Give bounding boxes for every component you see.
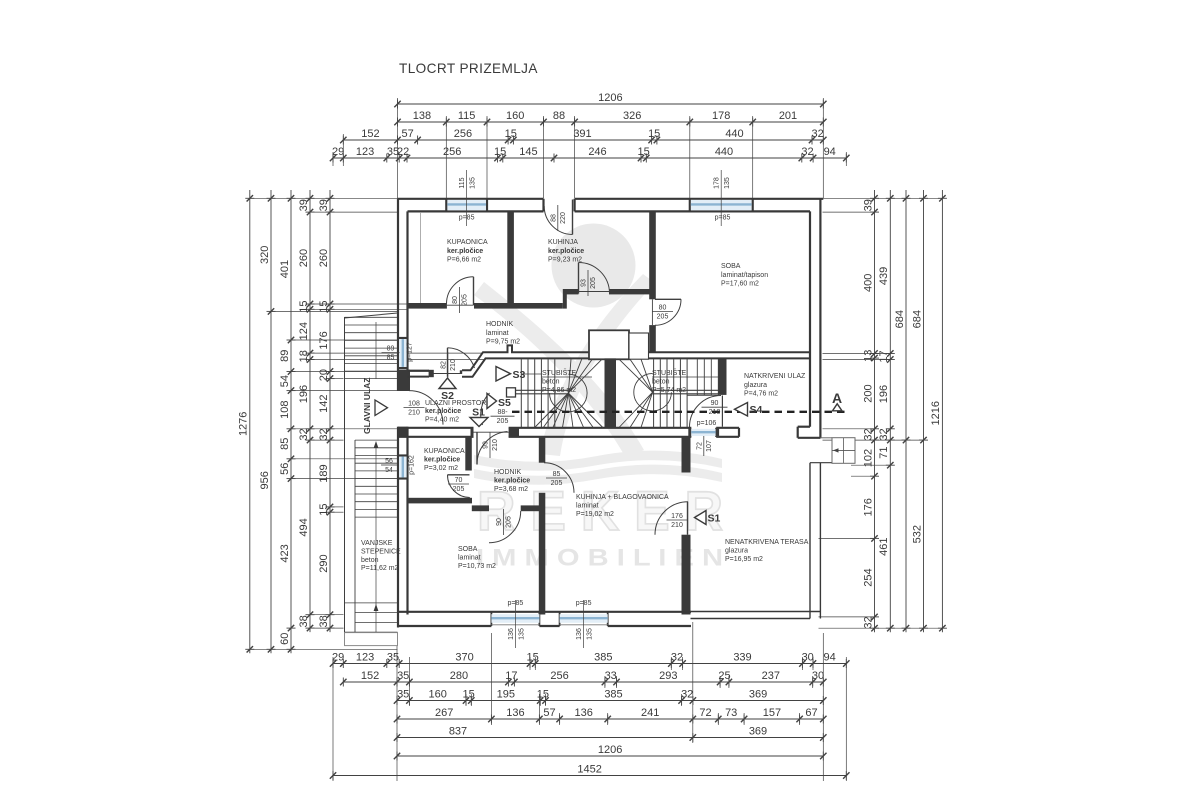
svg-text:VANJSKE: VANJSKE (361, 540, 393, 547)
svg-text:85: 85 (553, 471, 561, 478)
room label: HODNIK upper (486, 321, 520, 346)
svg-text:80: 80 (659, 305, 667, 312)
window 115 top (blue glazing) (447, 200, 486, 210)
svg-text:beton: beton (652, 379, 670, 386)
svg-text:TLOCRT PRIZEMLJA: TLOCRT PRIZEMLJA (399, 61, 538, 76)
svg-text:136: 136 (508, 628, 515, 640)
svg-text:29: 29 (332, 146, 344, 158)
svg-text:260: 260 (298, 249, 310, 267)
lower bathroom east wall (465, 437, 472, 471)
svg-text:KUPAONICA: KUPAONICA (447, 239, 488, 246)
svg-text:339: 339 (733, 652, 751, 664)
svg-text:38: 38 (298, 615, 310, 627)
svg-text:145: 145 (519, 146, 537, 158)
svg-text:136: 136 (575, 707, 593, 719)
svg-text:115: 115 (458, 110, 476, 122)
svg-text:176: 176 (318, 331, 330, 349)
svg-text:KUPAONICA: KUPAONICA (424, 448, 465, 455)
svg-text:70: 70 (455, 477, 463, 484)
svg-text:STUBIŠTE: STUBIŠTE (652, 368, 687, 377)
svg-text:210: 210 (671, 522, 683, 529)
svg-text:205: 205 (462, 294, 469, 306)
svg-text:18: 18 (298, 350, 310, 362)
left dimension column 5 (318, 190, 335, 632)
svg-text:195: 195 (497, 689, 515, 701)
window center line 115/135 (466, 170, 468, 226)
lower bathroom south wall (408, 498, 473, 504)
svg-text:ker.pločice: ker.pločice (425, 408, 461, 415)
svg-text:80: 80 (452, 296, 459, 304)
svg-text:237: 237 (762, 670, 780, 682)
section marker S3 (496, 367, 526, 382)
svg-text:684: 684 (894, 310, 906, 328)
label 93/205 kitchen door (581, 270, 598, 296)
svg-text:57: 57 (543, 707, 555, 719)
svg-text:p=106: p=106 (697, 420, 717, 427)
GLAVNI ULAZ label and arrow (362, 377, 388, 434)
svg-text:108: 108 (279, 401, 291, 419)
top extension lines (397, 98, 399, 198)
svg-text:P=3,02 m2: P=3,02 m2 (424, 465, 458, 472)
svg-text:HODNIK: HODNIK (486, 321, 514, 328)
svg-text:67: 67 (805, 707, 817, 719)
svg-text:35: 35 (397, 670, 409, 682)
svg-text:15: 15 (537, 689, 549, 701)
svg-text:210: 210 (450, 359, 457, 371)
svg-text:1216: 1216 (930, 401, 942, 425)
svg-text:ker.pločice: ker.pločice (494, 477, 530, 484)
svg-text:54: 54 (385, 467, 393, 474)
door 70/205 lower bathroom (448, 474, 470, 476)
svg-text:440: 440 (725, 128, 743, 140)
window 72/107 in stair hall south wall (blue) (691, 429, 715, 436)
room label: STUBISTE left (542, 368, 577, 394)
label 85/205 lower hallway door (546, 471, 567, 487)
exterior wall: bottom (south) (398, 612, 692, 626)
top dimension row 2 (394, 110, 826, 126)
right dimension column 4 (911, 190, 928, 632)
svg-text:beton: beton (542, 379, 560, 386)
svg-text:33: 33 (605, 670, 617, 682)
svg-text:210: 210 (709, 409, 721, 416)
svg-text:160: 160 (429, 689, 447, 701)
label 56/54 window (381, 458, 397, 474)
external staircase (VANJSKE STEPENICE) (345, 313, 398, 646)
svg-text:1206: 1206 (598, 744, 622, 756)
svg-text:S5: S5 (498, 397, 511, 409)
svg-text:SOBA: SOBA (458, 546, 478, 553)
svg-text:136: 136 (506, 707, 524, 719)
svg-text:p=127: p=127 (407, 342, 414, 362)
right dimension column 5 (930, 190, 947, 632)
stair hall bottom wall / lower apartment north wall (398, 428, 740, 437)
svg-text:260: 260 (318, 249, 330, 267)
room label: NATKRIVENI ULAZ (744, 373, 806, 398)
svg-text:94: 94 (824, 146, 836, 158)
shaft block (between HODNIK and staircase) (589, 330, 649, 359)
svg-text:32: 32 (878, 428, 890, 440)
door 80/205 upper bathroom (447, 277, 474, 305)
svg-text:136: 136 (576, 628, 583, 640)
svg-text:135: 135 (470, 177, 477, 189)
svg-text:200: 200 (862, 384, 874, 402)
svg-text:56: 56 (385, 458, 393, 465)
door 93/205 kitchen interior (579, 263, 610, 294)
svg-text:1206: 1206 (598, 92, 622, 104)
central staircase wall (605, 358, 617, 427)
svg-text:290: 290 (318, 554, 330, 572)
svg-text:220: 220 (560, 212, 567, 224)
svg-text:beton: beton (361, 557, 379, 564)
window p=127 left wall (blue) (399, 339, 407, 367)
room label: ULAZNI PROSTOR (425, 400, 486, 423)
section marker S1 upper (470, 407, 488, 427)
section marker S2 (439, 378, 456, 402)
svg-text:142: 142 (318, 395, 330, 413)
svg-text:108: 108 (408, 401, 420, 408)
svg-text:laminat: laminat (486, 330, 509, 337)
NATKRIVENI ULAZ west wall (718, 358, 726, 395)
svg-text:90: 90 (711, 400, 719, 407)
room label: KUPAONICA upper (447, 239, 488, 264)
interior wall KUHINJA/SOBA (649, 211, 656, 352)
lower hallway east wall / SOBA-KUHINJA wall (539, 437, 546, 615)
entry steps (right side) (820, 438, 855, 464)
label 80/205 bathroom door (452, 287, 469, 313)
top dimension row 1206 (394, 92, 826, 108)
svg-text:32: 32 (681, 689, 693, 701)
room label: SOBA upper (721, 263, 768, 288)
window 178 top (blue glazing) (691, 200, 752, 210)
svg-text:124: 124 (298, 322, 310, 340)
svg-text:494: 494 (298, 518, 310, 536)
bottom dimension row 1452 (330, 764, 850, 780)
svg-text:15: 15 (648, 128, 660, 140)
svg-text:29: 29 (332, 652, 344, 664)
section marker S1 lower (695, 511, 721, 525)
svg-text:p=85: p=85 (576, 600, 592, 607)
bathroom partition line (420, 212, 422, 303)
svg-text:15: 15 (318, 300, 330, 312)
svg-text:NENATKRIVENA TERASA: NENATKRIVENA TERASA (725, 539, 809, 546)
svg-text:99: 99 (483, 441, 490, 449)
svg-text:P=9,75 m2: P=9,75 m2 (486, 339, 520, 346)
svg-text:205: 205 (551, 480, 563, 487)
exterior wall: left (west) (398, 199, 410, 628)
svg-text:107: 107 (706, 440, 713, 452)
svg-text:P=4,76 m2: P=4,76 m2 (744, 391, 778, 398)
svg-text:glazura: glazura (725, 547, 748, 554)
svg-text:glazura: glazura (744, 382, 767, 389)
svg-text:P=4,40 m2: P=4,40 m2 (425, 416, 459, 423)
window center line 136/135 left (514, 600, 516, 648)
window p=162 left wall (blue) (399, 457, 407, 478)
svg-text:256: 256 (443, 146, 461, 158)
svg-text:22: 22 (397, 146, 409, 158)
svg-text:88: 88 (553, 110, 565, 122)
svg-text:p=85: p=85 (459, 215, 475, 222)
room label: KUHINJA (548, 239, 584, 264)
svg-text:196: 196 (878, 385, 890, 403)
svg-text:S4: S4 (750, 404, 763, 416)
svg-text:254: 254 (862, 568, 874, 586)
svg-text:56: 56 (279, 463, 291, 475)
svg-text:P=10,73 m2: P=10,73 m2 (458, 563, 496, 570)
room label: SOBA lower (458, 546, 496, 570)
svg-text:15: 15 (298, 300, 310, 312)
svg-text:72: 72 (699, 707, 711, 719)
svg-text:57: 57 (401, 128, 413, 140)
svg-text:439: 439 (878, 267, 890, 285)
bottom dimension row 1206 (394, 744, 827, 760)
label 176/210 terrace door (667, 513, 688, 529)
svg-text:20: 20 (318, 369, 330, 381)
svg-text:135: 135 (518, 628, 525, 640)
svg-text:320: 320 (259, 246, 271, 264)
right dimension column 2 (878, 190, 895, 632)
internal staircase left flight (507, 359, 603, 427)
svg-text:STEPENICE: STEPENICE (361, 548, 401, 555)
svg-text:178: 178 (714, 177, 721, 189)
door 80/205 SOBA (652, 299, 681, 325)
svg-text:176: 176 (862, 498, 874, 516)
section line A-A (dashed) (512, 411, 846, 413)
svg-text:32: 32 (862, 428, 874, 440)
door 90/205 lower hallway to SOBA (489, 511, 521, 543)
bottom dimension row 5 (837/369) (394, 726, 827, 742)
right dimension column 1 (862, 190, 879, 632)
svg-text:370: 370 (455, 652, 473, 664)
svg-text:85: 85 (279, 438, 291, 450)
svg-text:152: 152 (361, 670, 379, 682)
svg-text:P=3,68 m2: P=3,68 m2 (494, 486, 528, 493)
window 136 left bottom (blue) (491, 614, 539, 623)
svg-text:SOBA: SOBA (721, 263, 741, 270)
svg-text:p=85: p=85 (715, 215, 731, 222)
label 80/205 soba door (652, 305, 673, 321)
svg-text:241: 241 (641, 707, 659, 719)
svg-text:326: 326 (623, 110, 641, 122)
room label: HODNIK lower (494, 469, 530, 493)
door 176/210 kitchen to terrace (655, 502, 688, 535)
svg-text:201: 201 (779, 110, 797, 122)
lower hallway south wall (472, 505, 544, 511)
svg-text:NATKRIVENI ULAZ: NATKRIVENI ULAZ (744, 373, 806, 380)
svg-text:STUBIŠTE: STUBIŠTE (542, 368, 577, 377)
svg-text:38: 38 (318, 615, 330, 627)
svg-text:246: 246 (588, 146, 606, 158)
svg-text:72: 72 (696, 442, 703, 450)
room label: KUHINJA+BLAGOVAONICA (576, 494, 669, 518)
left dimension column 1276 (238, 190, 255, 653)
svg-text:152: 152 (361, 128, 379, 140)
svg-text:85: 85 (387, 355, 395, 362)
svg-text:13: 13 (862, 350, 874, 362)
svg-text:90: 90 (496, 518, 503, 526)
svg-text:15: 15 (526, 652, 538, 664)
svg-text:15: 15 (637, 146, 649, 158)
svg-text:P=9,23 m2: P=9,23 m2 (548, 257, 582, 264)
window center line 178/135 (720, 170, 722, 226)
svg-text:39: 39 (862, 199, 874, 211)
svg-text:S1: S1 (472, 407, 485, 419)
room label: KUPAONICA lower (424, 448, 465, 472)
svg-text:laminat: laminat (576, 502, 599, 509)
svg-text:30: 30 (802, 652, 814, 664)
label 108/210 main door (404, 401, 425, 417)
bottom dimension row 1 (330, 652, 850, 668)
svg-text:210: 210 (492, 439, 499, 451)
svg-text:93: 93 (581, 279, 588, 287)
svg-text:p=162: p=162 (409, 455, 416, 475)
door 82/210 entrance hall to corridor (434, 348, 475, 377)
svg-text:423: 423 (279, 544, 291, 562)
svg-text:256: 256 (454, 128, 472, 140)
room label: VANJSKE STEPENICE (361, 540, 401, 572)
svg-text:293: 293 (659, 670, 677, 682)
svg-text:88: 88 (550, 214, 557, 222)
exterior wall: right (east) (798, 199, 821, 438)
label 82/210 door (440, 352, 457, 378)
svg-text:178: 178 (712, 110, 730, 122)
svg-text:135: 135 (724, 177, 731, 189)
svg-text:189: 189 (318, 464, 330, 482)
svg-text:32: 32 (801, 146, 813, 158)
bottom extension lines (332, 657, 334, 781)
label 89/85 window (382, 346, 400, 362)
svg-text:ker.pločice: ker.pločice (447, 248, 483, 255)
KUHINJA+BLAGOVAONICA east wall (682, 437, 691, 615)
internal staircase right flight (619, 359, 720, 427)
interior wall KUPAONICA/KUHINJA (507, 211, 514, 307)
svg-text:ULAZNI PROSTOR: ULAZNI PROSTOR (425, 400, 486, 407)
svg-text:400: 400 (862, 274, 874, 292)
svg-text:135: 135 (587, 628, 594, 640)
svg-text:P=11,62 m2: P=11,62 m2 (361, 565, 399, 572)
svg-text:ker.pločice: ker.pločice (548, 248, 584, 255)
svg-text:HODNIK: HODNIK (494, 469, 522, 476)
top dimension row 3 (340, 128, 826, 144)
label 88/205 section ref (491, 409, 515, 425)
svg-text:532: 532 (911, 525, 923, 543)
terrace boundary (thin, unroofed) (691, 463, 852, 619)
HODNIK south wall with jog + stair hall north wall + SOBA south wall (408, 345, 811, 377)
svg-text:P=19,02 m2: P=19,02 m2 (576, 511, 614, 518)
bottom dimension row 2 (340, 670, 826, 686)
door 85/205 lower hallway to kitchen (544, 463, 574, 493)
door leaf arc at entrance hall / stair passage (481, 393, 490, 425)
svg-text:115: 115 (459, 177, 466, 188)
window center line 136/135 right (583, 600, 585, 648)
svg-text:401: 401 (279, 260, 291, 278)
svg-text:laminat/tapison: laminat/tapison (721, 272, 768, 279)
svg-text:82: 82 (440, 361, 447, 369)
label 99/210 door (483, 432, 500, 458)
watermark logo REKER IMMOBILIEN (light gray, behind plan) (474, 224, 723, 572)
svg-text:369: 369 (749, 726, 767, 738)
svg-text:102: 102 (862, 449, 874, 467)
svg-text:89: 89 (387, 346, 395, 353)
svg-text:196: 196 (298, 385, 310, 403)
svg-text:391: 391 (573, 128, 591, 140)
section marker S5 (487, 394, 511, 410)
svg-text:15: 15 (318, 503, 330, 515)
main entrance door 108/210 (409, 391, 443, 425)
svg-text:P=17,60 m2: P=17,60 m2 (721, 281, 759, 288)
svg-text:39: 39 (318, 199, 330, 211)
label 70/205 lower bathroom door (448, 477, 469, 493)
svg-text:17: 17 (878, 350, 890, 362)
svg-text:73: 73 (725, 707, 737, 719)
top dimension row 4 (330, 146, 850, 162)
svg-text:P=16,95 m2: P=16,95 m2 (725, 556, 763, 563)
svg-text:32: 32 (298, 428, 310, 440)
exterior wall: top (north) (398, 199, 824, 212)
door 99/210 stair hall to lower hallway (474, 432, 509, 465)
svg-text:369: 369 (749, 689, 767, 701)
svg-text:54: 54 (279, 375, 291, 387)
svg-text:205: 205 (497, 418, 509, 425)
svg-text:123: 123 (356, 146, 374, 158)
section marker A (832, 390, 842, 411)
svg-text:267: 267 (435, 707, 453, 719)
svg-text:P=5,74 m2: P=5,74 m2 (652, 387, 686, 394)
left dimension column 2 (259, 190, 276, 653)
svg-text:205: 205 (590, 277, 597, 289)
svg-text:30: 30 (812, 670, 824, 682)
section marker S4 (735, 403, 763, 417)
svg-text:GLAVNI ULAZ: GLAVNI ULAZ (362, 377, 372, 434)
svg-text:15: 15 (494, 146, 506, 158)
room label: STUBISTE right (652, 368, 687, 394)
label 72/107 window (696, 436, 713, 456)
svg-text:KUHINJA: KUHINJA (548, 239, 578, 246)
svg-text:KUHINJA + BLAGOVAONICA: KUHINJA + BLAGOVAONICA (576, 494, 669, 501)
svg-text:837: 837 (449, 726, 467, 738)
svg-text:205: 205 (657, 314, 669, 321)
svg-text:461: 461 (878, 538, 890, 556)
svg-text:176: 176 (671, 513, 683, 520)
svg-text:123: 123 (356, 652, 374, 664)
svg-text:S1: S1 (708, 513, 721, 525)
svg-text:385: 385 (594, 652, 612, 664)
svg-text:160: 160 (506, 110, 524, 122)
svg-text:89: 89 (279, 350, 291, 362)
svg-text:956: 956 (259, 471, 271, 489)
svg-text:35: 35 (397, 689, 409, 701)
label 88/220 kitchen door (550, 205, 567, 231)
svg-text:1452: 1452 (577, 764, 601, 776)
svg-text:S3: S3 (513, 369, 526, 381)
wall under KUPAONICA / HODNIK north (408, 289, 650, 309)
svg-text:205: 205 (453, 486, 465, 493)
right extension lines (823, 197, 942, 199)
svg-text:256: 256 (550, 670, 568, 682)
label 90/205 soba door (496, 509, 513, 535)
svg-text:60: 60 (279, 633, 291, 645)
svg-text:440: 440 (715, 146, 733, 158)
svg-text:94: 94 (823, 652, 835, 664)
left extension lines (250, 197, 398, 199)
svg-text:88-: 88- (497, 409, 508, 416)
svg-text:71: 71 (878, 446, 890, 458)
svg-text:157: 157 (763, 707, 781, 719)
svg-text:138: 138 (413, 110, 431, 122)
svg-text:32: 32 (862, 616, 874, 628)
svg-text:15: 15 (505, 128, 517, 140)
svg-text:32: 32 (671, 652, 683, 664)
svg-text:1276: 1276 (238, 412, 250, 436)
